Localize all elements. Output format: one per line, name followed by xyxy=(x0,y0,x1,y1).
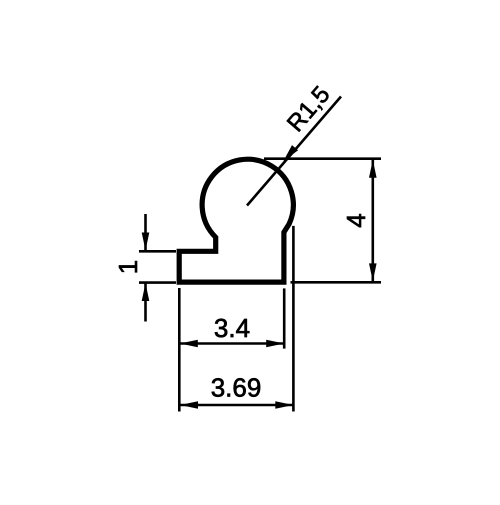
svg-text:1: 1 xyxy=(113,260,143,274)
radius R1.5: arrowhead xyxy=(283,145,298,161)
dimension 1: bottom extension line xyxy=(139,281,176,284)
svg-text:4: 4 xyxy=(341,213,371,227)
dimension 3.69: left arrowhead xyxy=(180,401,198,409)
dimension 3.69: right extension line (also marks profile right extreme) xyxy=(292,226,295,412)
dimension 4: bottom arrowhead xyxy=(369,263,377,281)
dimension 1: upper arrowhead xyxy=(142,233,150,251)
dimension 3.4: right extension line xyxy=(283,288,286,348)
radius R1.5: leader line xyxy=(247,97,341,206)
svg-text:R1,5: R1,5 xyxy=(282,81,336,137)
dimension 3.4: dimension line xyxy=(180,342,284,345)
dimension 1: lower arrowhead xyxy=(142,283,150,301)
dimension 4: top extension line xyxy=(264,157,381,160)
svg-text:3.69: 3.69 xyxy=(211,373,262,403)
dimension 1: dimension line upper segment xyxy=(144,214,147,251)
dimension 1: top extension line xyxy=(139,250,176,253)
dimension 3.69: dimension line xyxy=(180,404,293,407)
dimension 4: bottom extension line xyxy=(291,281,382,284)
dimension 3.4: right arrowhead xyxy=(266,340,284,348)
dimension 3.4: left arrowhead xyxy=(180,340,198,348)
dimension 4: top arrowhead xyxy=(369,160,377,178)
svg-text:3.4: 3.4 xyxy=(214,313,250,343)
profile outline (gasket cross-section) xyxy=(179,159,293,282)
dimension 4: dimension line xyxy=(371,160,374,281)
dimension 1: dimension line lower segment xyxy=(144,283,147,322)
dimension 3.69: right arrowhead xyxy=(275,401,293,409)
dimension 3.4: left extension line (shared with 3.69) xyxy=(178,288,181,412)
